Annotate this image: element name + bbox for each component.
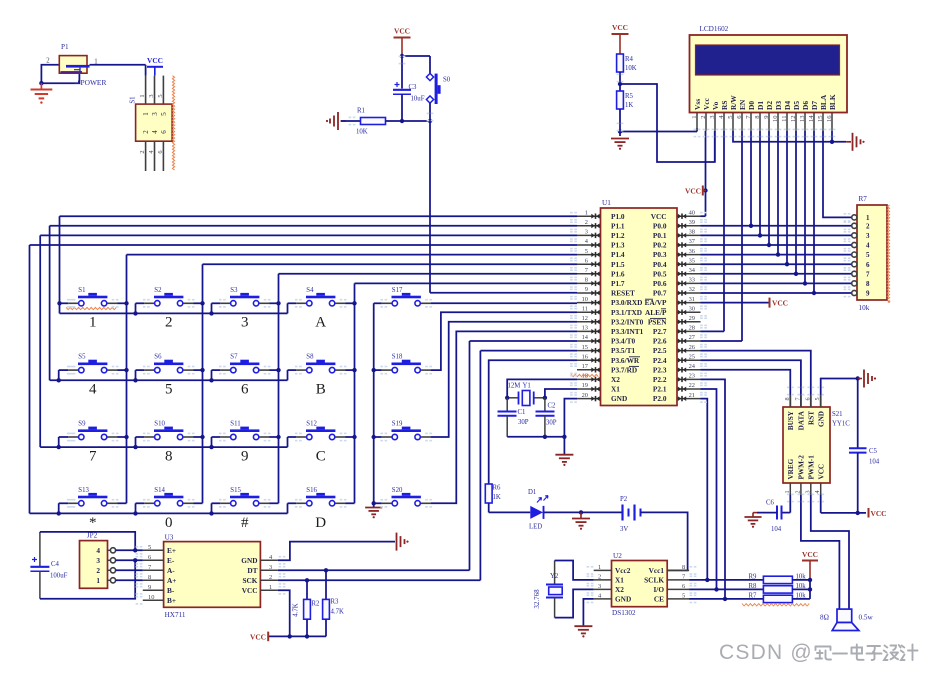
svg-text:RS: RS — [720, 101, 729, 110]
U3 left pin names — [167, 546, 176, 605]
wire R2 bottom — [306, 619, 308, 636]
key label 1 — [89, 315, 97, 331]
label P1 — [61, 43, 69, 51]
push button S12 — [296, 421, 345, 440]
junction CE riser — [723, 597, 727, 601]
svg-text:P2.4: P2.4 — [653, 356, 667, 365]
svg-text:23: 23 — [689, 373, 695, 380]
svg-text:Vo: Vo — [711, 101, 720, 110]
wire S15 left lead — [212, 502, 221, 504]
wire S13 right lead — [117, 502, 126, 504]
svg-text:5: 5 — [160, 112, 168, 116]
resistor R2 body — [304, 599, 311, 619]
svg-text:16: 16 — [582, 353, 588, 360]
svg-text:HX711: HX711 — [165, 611, 186, 619]
svg-text:S12: S12 — [306, 421, 317, 428]
label U3 — [165, 534, 174, 542]
wire S20 left lead — [374, 502, 382, 504]
svg-text:2: 2 — [46, 58, 50, 65]
wire R2 top — [306, 580, 308, 599]
svg-text:GND: GND — [818, 411, 826, 427]
svg-text:P3.5/T1: P3.5/T1 — [611, 346, 635, 355]
ground after LED — [572, 512, 590, 529]
wire S14 left lead — [136, 502, 145, 504]
svg-text:B-: B- — [167, 586, 175, 595]
label R3 — [331, 599, 340, 606]
label C5 — [869, 448, 878, 455]
svg-text:27: 27 — [689, 334, 696, 341]
svg-text:33: 33 — [689, 277, 695, 284]
wire P2.0 to SCLK — [701, 399, 708, 580]
push button S10 — [144, 421, 193, 440]
svg-text:D3: D3 — [774, 101, 783, 110]
label DS1302 — [612, 609, 636, 617]
LCD1602 body — [690, 35, 848, 113]
junction R8 vcc — [808, 587, 812, 591]
wire JP2-1 to A+ — [116, 579, 143, 581]
label 100uF — [50, 573, 68, 580]
label LCD1602 — [700, 25, 729, 33]
svg-text:U1: U1 — [602, 199, 611, 207]
svg-text:25: 25 — [689, 353, 695, 360]
U2 pin names — [615, 566, 664, 604]
wire P1 pin1 to VCC/E1 — [90, 65, 146, 76]
junction crystal left — [505, 396, 509, 400]
svg-text:D7: D7 — [810, 101, 819, 110]
svg-text:5: 5 — [866, 251, 870, 259]
label R5 — [625, 93, 634, 100]
push button S11 — [220, 421, 269, 440]
wire S15 right lead — [269, 502, 278, 504]
wire VCC rail bottom — [269, 635, 327, 637]
svg-text:13: 13 — [582, 325, 588, 332]
svg-text:P3.3/INT1: P3.3/INT1 — [611, 327, 644, 336]
wire S3 left lead — [212, 302, 221, 304]
watermark CSDN — [719, 641, 813, 664]
svg-text:30P: 30P — [518, 419, 529, 426]
svg-text:R9: R9 — [749, 574, 758, 581]
label 10k of R9 — [796, 574, 807, 581]
svg-text:6: 6 — [241, 381, 249, 397]
ground at LCD (sideways) — [846, 133, 864, 151]
resistor R5 body — [617, 91, 624, 109]
svg-text:Y1: Y1 — [523, 383, 531, 390]
wire LCD D6 column — [804, 131, 806, 284]
mcu U1 body — [601, 208, 678, 406]
svg-text:4: 4 — [866, 242, 870, 250]
svg-text:YY1C: YY1C — [832, 421, 850, 428]
orange selection hatch R7 — [887, 205, 890, 303]
svg-text:11: 11 — [582, 305, 588, 312]
wire row1 net — [60, 312, 288, 314]
push button S20 — [382, 487, 431, 506]
svg-text:P1.4: P1.4 — [611, 250, 625, 259]
junctions row4 jogs — [57, 511, 214, 515]
svg-text:VCC: VCC — [818, 464, 826, 480]
led D1 — [530, 496, 548, 519]
wire EA/VP to VCC — [701, 302, 770, 304]
svg-text:R7: R7 — [749, 593, 758, 600]
label 3V — [620, 526, 628, 533]
svg-text:38: 38 — [689, 229, 695, 236]
junction crystal right — [543, 396, 547, 400]
junction C5/VCC — [856, 511, 860, 515]
key label 8 — [165, 448, 173, 464]
push button S6 — [144, 354, 193, 373]
wire P1.5 bus line — [203, 263, 578, 265]
svg-text:4: 4 — [89, 381, 97, 397]
label C1 — [518, 409, 526, 416]
wire row4 left-lead jogs — [59, 503, 288, 513]
resistor R8 body — [763, 586, 792, 593]
label 1K of R6 — [493, 494, 501, 501]
wire U2 GND to ground — [583, 599, 593, 626]
wire SCLK row — [689, 579, 763, 581]
svg-text:VCC: VCC — [802, 550, 818, 559]
wire S17 left lead — [374, 302, 382, 304]
svg-text:5: 5 — [585, 248, 588, 255]
push button S13 — [68, 487, 117, 506]
svg-text:2: 2 — [269, 574, 272, 581]
svg-text:P2.0: P2.0 — [653, 394, 667, 403]
svg-text:S1: S1 — [78, 287, 85, 294]
wire P1.7 bus line — [355, 282, 578, 284]
svg-text:P1.0: P1.0 — [611, 212, 625, 221]
svg-text:8: 8 — [866, 280, 870, 288]
svg-text:P0.4: P0.4 — [653, 260, 667, 269]
svg-text:10: 10 — [582, 296, 588, 303]
connector E1 body — [136, 104, 173, 141]
junction D5/P0.5 — [794, 272, 798, 276]
svg-text:3: 3 — [151, 112, 159, 116]
junction VCC port LCD — [703, 188, 707, 192]
ground at module (sideways) — [858, 370, 876, 388]
svg-text:21: 21 — [689, 392, 695, 399]
svg-text:P0.7: P0.7 — [653, 289, 667, 298]
svg-text:2: 2 — [794, 490, 801, 493]
wire X2 to crystal — [507, 379, 577, 397]
wire S5 right lead — [117, 369, 126, 371]
label 10K of R4 — [625, 65, 637, 72]
wire P1.1 bus line — [50, 225, 577, 227]
svg-text:P2: P2 — [620, 496, 628, 503]
wire P2.4 to DATA — [701, 360, 801, 407]
svg-text:36: 36 — [689, 248, 695, 255]
svg-text:39: 39 — [689, 219, 695, 226]
wire SCK riser to P3.5 — [480, 351, 577, 581]
svg-text:10uF: 10uF — [411, 96, 425, 103]
junction C3/R1 — [400, 119, 404, 123]
junction R5/Vss node — [618, 129, 622, 133]
junction IO riser — [714, 587, 718, 591]
junctions column 2 — [200, 301, 204, 439]
ground below R5 — [611, 139, 629, 150]
svg-text:S14: S14 — [154, 487, 165, 494]
svg-text:17: 17 — [582, 363, 589, 370]
svg-text:2: 2 — [598, 573, 601, 580]
svg-text:S19: S19 — [392, 421, 403, 428]
svg-text:P0.6: P0.6 — [653, 279, 667, 288]
label 4.7K of R3 — [331, 609, 344, 616]
svg-text:8: 8 — [784, 397, 791, 400]
wire JP2-2 to A- — [116, 569, 143, 571]
svg-text:Vcc: Vcc — [702, 97, 711, 110]
svg-text:RST: RST — [808, 411, 816, 425]
wire R8 right — [792, 588, 810, 590]
svg-text:R4: R4 — [625, 56, 634, 63]
wire P3.6 to R6 — [489, 360, 577, 484]
wire U3 VCC down — [278, 590, 290, 636]
wire S2 right lead — [193, 302, 202, 304]
orange ERC squiggle under S1 — [66, 307, 116, 309]
wire S0 bottom to reset line — [429, 103, 431, 121]
wire P1.3 bus line — [30, 244, 578, 246]
wire R6 to LED — [489, 503, 531, 512]
wire row2 left-lead jogs — [59, 370, 288, 380]
wire pin40 to VCC vertical — [701, 131, 706, 216]
svg-text:8: 8 — [148, 574, 151, 581]
svg-text:P3.0/RXD: P3.0/RXD — [611, 298, 642, 307]
svg-text:3: 3 — [269, 564, 272, 571]
svg-text:P1.5: P1.5 — [611, 260, 625, 269]
U2 right pins — [667, 564, 689, 600]
svg-text:8Ω: 8Ω — [820, 614, 829, 622]
svg-text:1: 1 — [139, 94, 146, 97]
svg-text:E-: E- — [167, 556, 175, 565]
battery P2 (3V) — [623, 505, 641, 521]
svg-text:9: 9 — [148, 584, 151, 591]
svg-text:U3: U3 — [165, 534, 174, 542]
svg-text:15: 15 — [582, 344, 588, 351]
wire S17 to P3.0 — [431, 302, 577, 304]
svg-text:S3: S3 — [230, 287, 238, 294]
svg-text:P3.2/INT0: P3.2/INT0 — [611, 317, 644, 326]
svg-text:12: 12 — [582, 315, 588, 322]
svg-text:CSDN @: CSDN @ — [719, 641, 813, 664]
label 4.7K rotated — [293, 603, 300, 616]
wire PWM-2 to speaker — [801, 495, 840, 609]
wire S9 left lead — [59, 436, 69, 438]
svg-text:5: 5 — [148, 544, 151, 551]
wire S9 right lead — [117, 436, 126, 438]
key label 4 — [89, 381, 97, 397]
svg-text:X1: X1 — [615, 576, 624, 585]
junction D2/P0.2 — [767, 243, 771, 247]
svg-text:S5: S5 — [78, 354, 86, 361]
wire JP2-3 to E- — [116, 559, 143, 561]
wire P0.2 row — [701, 244, 852, 246]
U2 left pins — [594, 564, 612, 600]
svg-text:P0.5: P0.5 — [653, 269, 667, 278]
svg-text:104: 104 — [869, 459, 880, 466]
svg-text:2: 2 — [142, 130, 150, 134]
wire S14 right lead — [193, 502, 202, 504]
wire divider mid to LCD Vo — [620, 84, 715, 162]
svg-text:D5: D5 — [792, 101, 801, 110]
svg-text:C2: C2 — [548, 403, 557, 410]
crystal Y1 — [507, 391, 545, 406]
push button S8 — [296, 354, 345, 373]
label P2 — [620, 496, 628, 503]
ground at C6 — [744, 513, 761, 528]
svg-text:6: 6 — [682, 583, 685, 590]
push button S2 — [144, 287, 193, 306]
wire LCD BLK — [831, 131, 833, 142]
svg-text:P1.6: P1.6 — [611, 269, 625, 278]
power port VCC (module, sideways) — [869, 508, 887, 518]
wire U1 GND down — [564, 399, 577, 455]
wire row3 drop — [39, 235, 41, 447]
wire C3 bottom to R1 row — [401, 94, 403, 121]
svg-text:P2.5: P2.5 — [653, 346, 667, 355]
svg-text:P0.2: P0.2 — [653, 241, 667, 250]
wire S6 left lead — [136, 369, 145, 371]
wire S16 right lead — [345, 502, 354, 504]
wire VCC to pullup rail — [809, 580, 811, 599]
svg-text:40: 40 — [689, 209, 695, 216]
svg-text:6: 6 — [160, 130, 168, 134]
LCD pins — [697, 113, 832, 131]
ground of U2 — [574, 626, 592, 637]
key label B — [316, 381, 326, 397]
svg-text:R2: R2 — [312, 601, 321, 608]
junction BLK gnd — [830, 140, 834, 144]
wire R5 node to LCD Vss — [620, 128, 697, 132]
wire DT riser to P3.4 — [470, 341, 578, 570]
svg-text:3: 3 — [598, 583, 601, 590]
svg-text:1: 1 — [89, 315, 97, 331]
svg-text:VREG: VREG — [787, 458, 795, 479]
wire U3 GND to ground — [278, 542, 395, 561]
wire S4 left lead — [288, 302, 297, 304]
wire S10 left lead — [136, 436, 145, 438]
svg-text:4: 4 — [585, 238, 589, 245]
svg-text:P2.7: P2.7 — [653, 327, 667, 336]
wire reset net down to U1 RESET — [430, 121, 577, 293]
junction D0/P0.0 — [749, 224, 753, 228]
wire R5 bottom node — [619, 109, 621, 136]
wire P0.7 row — [701, 292, 852, 294]
svg-text:PWM-2: PWM-2 — [798, 455, 806, 480]
svg-text:P0.0: P0.0 — [653, 221, 667, 230]
module pin stubs — [790, 395, 820, 495]
svg-text:4.7K: 4.7K — [331, 609, 344, 616]
wire S7 left lead — [212, 369, 221, 371]
svg-text:2: 2 — [96, 566, 100, 575]
module pin names — [787, 410, 825, 479]
junction SCLK riser — [705, 578, 709, 582]
connector P1 body — [59, 56, 89, 74]
svg-text:7: 7 — [585, 267, 589, 274]
junctions row3 jogs — [57, 445, 214, 449]
wire P0.4 row — [701, 263, 852, 265]
svg-text:20: 20 — [582, 392, 588, 399]
svg-text:6: 6 — [804, 397, 811, 400]
ground at U3 (sideways) — [397, 533, 409, 551]
wire C4 top loop — [40, 532, 135, 550]
svg-text:C4: C4 — [51, 561, 60, 568]
svg-text:RESET: RESET — [611, 289, 635, 298]
svg-text:GND: GND — [611, 394, 627, 403]
wire R9 right — [792, 579, 810, 581]
svg-text:S15: S15 — [230, 487, 241, 494]
wire module GND up to ground — [821, 379, 858, 408]
svg-text:30: 30 — [689, 305, 695, 312]
wire S6 right lead — [193, 369, 202, 371]
svg-text:P1.1: P1.1 — [611, 221, 625, 230]
svg-text:8: 8 — [682, 564, 685, 571]
svg-text:VCC: VCC — [685, 187, 701, 196]
svg-text:3: 3 — [148, 94, 155, 97]
svg-text:B: B — [316, 381, 326, 397]
label LED — [529, 524, 542, 531]
wire S8 left lead — [288, 369, 297, 371]
svg-text:2: 2 — [585, 219, 588, 226]
ground at P1 (red) — [31, 83, 53, 104]
svg-text:S6: S6 — [154, 354, 162, 361]
svg-text:7: 7 — [866, 270, 870, 278]
wire S10 right lead — [193, 436, 202, 438]
wire S20 to P3.3 — [431, 331, 577, 503]
label S21 — [832, 411, 843, 418]
svg-text:P1.7: P1.7 — [611, 279, 625, 288]
junction row1 drop at S1 — [57, 301, 61, 305]
svg-text:U2: U2 — [613, 552, 622, 560]
svg-text:7: 7 — [89, 448, 97, 464]
svg-text:SCLK: SCLK — [644, 576, 664, 585]
junction E- node — [133, 558, 137, 562]
pin names inside E1 — [142, 112, 168, 134]
pin number 1 of P1 — [94, 59, 97, 66]
svg-text:0.5w: 0.5w — [859, 614, 874, 622]
svg-text:I/O: I/O — [653, 585, 664, 594]
svg-text:P1.3: P1.3 — [611, 241, 625, 250]
junction S0/R1 reset node — [428, 119, 432, 123]
wire P2.3 to BUSY — [701, 370, 791, 407]
svg-text:2: 2 — [139, 150, 146, 153]
svg-text:A+: A+ — [167, 576, 176, 585]
svg-text:VCC: VCC — [651, 212, 667, 221]
svg-text:#: # — [241, 515, 249, 531]
voice module S21 body — [783, 407, 830, 483]
svg-text:104: 104 — [771, 526, 782, 533]
svg-text:VCC: VCC — [147, 56, 163, 65]
wire Y2 bottom to X2 — [555, 589, 594, 617]
svg-text:P2.6: P2.6 — [653, 337, 667, 346]
wire S11 right lead — [269, 436, 278, 438]
R7 pins 1-9 — [852, 214, 870, 298]
svg-text:B+: B+ — [167, 596, 176, 605]
svg-text:BLA: BLA — [819, 94, 828, 110]
wire S8 right lead — [345, 369, 354, 371]
wire LCD BLA to R7 pin1 — [823, 131, 852, 218]
key label 9 — [241, 448, 249, 464]
key label 3 — [241, 315, 249, 331]
wire S11 left lead — [212, 436, 221, 438]
wire column 4 vertical — [354, 283, 356, 503]
svg-text:PWM-1: PWM-1 — [808, 455, 816, 480]
svg-text:5: 5 — [814, 397, 821, 400]
svg-text:3: 3 — [585, 229, 588, 236]
svg-text:VCC: VCC — [394, 27, 410, 36]
label C6 — [766, 500, 775, 507]
svg-text:S2: S2 — [154, 287, 162, 294]
svg-text:26: 26 — [689, 344, 695, 351]
push button S9 — [68, 421, 117, 440]
wire column 1 vertical — [126, 255, 128, 504]
pin number 2 of P1 — [46, 58, 50, 65]
svg-text:34: 34 — [689, 267, 696, 274]
